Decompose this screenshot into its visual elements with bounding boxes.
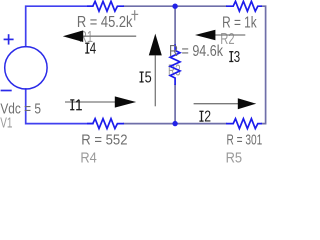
svg-text:3: 3 [234, 49, 240, 66]
svg-text:2: 2 [204, 109, 211, 126]
svg-text:R = 1k: R = 1k [222, 14, 257, 31]
svg-text:R = 301: R = 301 [227, 131, 263, 148]
svg-text:5: 5 [145, 69, 152, 86]
svg-text:V1: V1 [0, 116, 12, 132]
svg-text:R4: R4 [80, 149, 96, 166]
svg-text:R = 94.6k: R = 94.6k [169, 43, 224, 60]
svg-text:R5: R5 [226, 149, 243, 166]
svg-text:4: 4 [90, 41, 96, 58]
svg-text:R2: R2 [220, 31, 234, 48]
svg-text:R = 552: R = 552 [81, 131, 127, 148]
